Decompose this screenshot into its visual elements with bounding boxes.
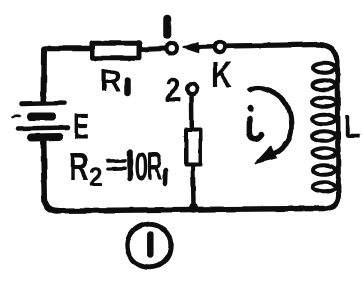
subscript 1 of R1 label	[124, 81, 131, 94]
current arrow head	[255, 147, 276, 164]
inductor L coil loop 2	[313, 80, 336, 90]
wire top-right from switch to corner	[227, 45, 338, 62]
inductor L coil loop 4	[312, 114, 336, 124]
wire left vertical from top wire down to battery	[41, 49, 48, 101]
wire from R2 to bottom wire	[191, 167, 196, 206]
svg-text:2: 2	[89, 163, 103, 192]
svg-text:E: E	[73, 106, 89, 148]
subscript 1 of 10R1	[163, 170, 168, 184]
inductor L coil loop 8	[314, 182, 336, 192]
wire from contact 2 down to R2	[189, 96, 194, 128]
junction node under R2	[189, 203, 198, 212]
svg-text:K: K	[211, 54, 232, 95]
wire top-left segment from left branch to R1	[45, 46, 91, 52]
stray scan speck left of battery	[13, 116, 20, 117]
wire bottom from left corner to right corner	[58, 209, 324, 211]
inductor L coil loop 6	[313, 148, 336, 158]
switch contact 1 (circle)	[167, 44, 177, 54]
digit 1 of 10R	[127, 153, 133, 179]
wire from R1 to switch contact 1	[141, 49, 165, 50]
digit 1 inside bottom circle	[147, 235, 154, 256]
inductor L right vertical conductor	[324, 61, 339, 209]
resistor R2	[186, 130, 201, 165]
battery E plate 4 (short thick)	[31, 133, 59, 142]
current arrow arc	[250, 88, 292, 157]
battery E plate 1 (long thin)	[21, 103, 65, 104]
svg-text:R: R	[100, 64, 121, 98]
label i (current): stem with curved tail	[249, 118, 261, 139]
switch contact 2 (circle)	[187, 84, 197, 94]
switch K pivot (circle)	[215, 42, 226, 53]
inductor L coil loop 3	[312, 97, 336, 107]
svg-text:2: 2	[165, 70, 181, 109]
battery E plate 2 (short thick)	[31, 113, 53, 121]
circled figure label 1 (circle)	[127, 224, 171, 268]
battery E plate 3 (long thin)	[18, 128, 68, 129]
inductor L coil loop 5	[313, 131, 336, 141]
svg-text:R: R	[147, 144, 163, 189]
wire left vertical from battery to bottom-left corner	[44, 141, 59, 211]
inductor L coil loop 7	[313, 165, 335, 175]
equals sign of R2 formula	[108, 161, 125, 169]
svg-text:R: R	[69, 145, 89, 189]
resistor R1	[93, 43, 140, 59]
switch K blade line	[197, 44, 214, 49]
label i (current): dot	[247, 105, 253, 111]
label 1 above switch contact 1	[163, 19, 171, 36]
inductor L coil loop 1	[314, 63, 336, 73]
svg-text:L: L	[344, 110, 361, 146]
switch K blade arrowhead	[184, 42, 199, 52]
